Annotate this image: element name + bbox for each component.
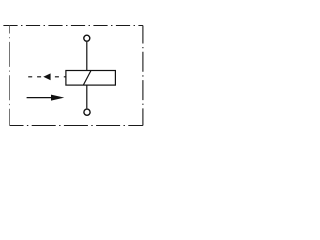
enclosure boundary (dash-dot box) top <box>3 25 143 27</box>
enclosure boundary left <box>9 26 11 126</box>
enclosure boundary bottom <box>10 125 143 127</box>
wire from component to bottom terminal <box>86 85 88 108</box>
component body (rectangle) <box>66 71 116 86</box>
dashed arrow head <box>43 73 50 80</box>
terminal circle top <box>84 35 90 41</box>
enclosure boundary right <box>142 26 144 126</box>
solid arrow line (pointing right) <box>27 97 53 99</box>
terminal circle bottom <box>84 109 90 115</box>
solid arrow head <box>51 95 64 101</box>
diagonal slash inside component <box>83 71 91 86</box>
wire from top terminal to component <box>86 42 88 71</box>
dashed arrow line (pointing left at component) <box>28 76 66 78</box>
